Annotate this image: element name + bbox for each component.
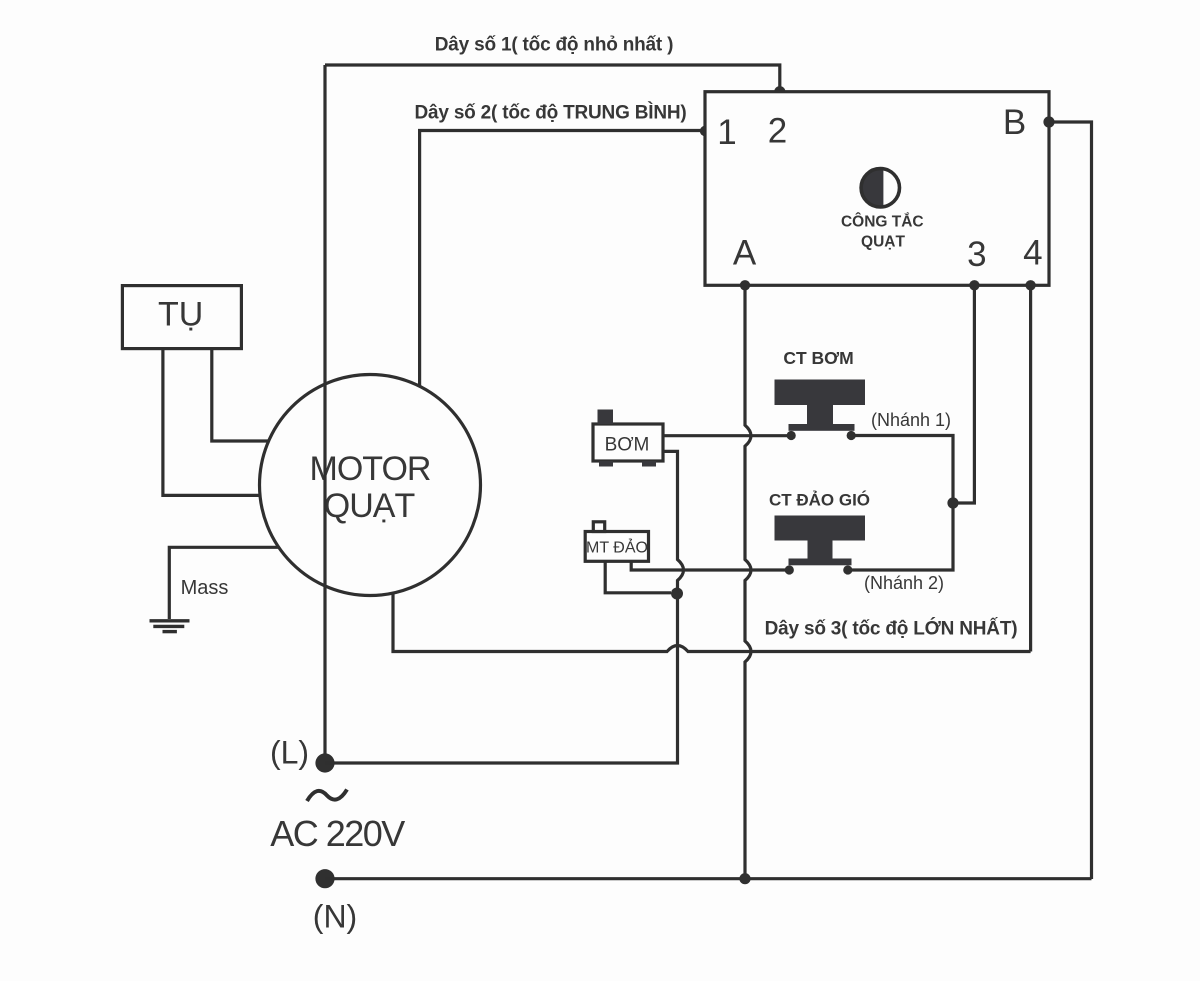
reversing motor box MT ĐẢO [585,522,648,562]
node CT BƠM left contact [787,431,796,440]
wire Dây số 2 (horizontal into terminal 1, vertical down to motor) [420,131,705,387]
svg-text:(N): (N) [313,899,357,935]
svg-text:CT BƠM: CT BƠM [783,348,853,368]
wire terminal A vertical down to N line (hops at three crossings) [745,285,751,879]
pump motor box BƠM [593,410,663,467]
svg-text:QUẠT: QUẠT [324,487,415,525]
wire MT ĐẢO right lead to CT ĐẢO GIÓ left contact [631,561,789,570]
svg-text:Dây số 3( tốc độ LỚN NHẤT): Dây số 3( tốc độ LỚN NHẤT) [765,618,1018,640]
ground symbol [150,621,190,632]
svg-text:AC 220V: AC 220V [270,813,405,854]
AC source tilde symbol [307,790,347,802]
switch box CÔNG TẮC QUẠT [705,92,1049,286]
svg-text:CÔNG TẮC: CÔNG TẮC [841,213,924,231]
svg-text:MT ĐẢO: MT ĐẢO [586,538,648,557]
wire Dây số 3 (from motor bottom, across to terminal 4 wire, hop at x=677.5) [393,593,1031,652]
node terminal 4 dot [1025,280,1035,290]
node branch riser junction dot [947,497,958,508]
svg-text:3: 3 [967,235,986,274]
svg-text:TỤ: TỤ [158,296,203,334]
node terminal B dot [1043,116,1054,127]
svg-text:B: B [1003,103,1026,142]
svg-text:CT ĐẢO GIÓ: CT ĐẢO GIÓ [769,491,870,510]
rotary switch icon (half-filled circle) [861,166,902,210]
node branch junction dot (BƠM/MT ĐẢO common) [671,588,683,600]
wire terminal 4 down to Dây số 3 line [1029,285,1032,651]
wire L line (from L dot right, then up to branch junction) [325,594,678,764]
node CT ĐẢO GIÓ left contact [785,565,794,574]
node junction dot N line with A wire [739,873,750,884]
svg-text:QUẠT: QUẠT [861,234,905,251]
node terminal A dot [740,280,750,290]
wire N line (from N dot to right bus) [325,877,1092,880]
svg-text:Mass: Mass [181,577,229,599]
svg-text:2: 2 [768,112,787,151]
svg-text:1: 1 [717,113,736,152]
svg-text:BƠM: BƠM [605,435,650,456]
wire Dây số 1 (top horizontal from left bus to switch box top) [325,65,780,92]
switch CT BƠM symbol [775,380,866,431]
node (L) dot [315,753,334,772]
wire BƠM bottom lead down to branch junction (hop at MT ĐẢO wire) [663,451,684,593]
motor circle [260,375,481,596]
node junction dot on box top edge [774,86,785,97]
node CT ĐẢO GIÓ right contact [843,565,852,574]
wire Mass lead from motor to ground [169,547,278,619]
switch CT ĐẢO GIÓ symbol [775,516,866,566]
svg-text:A: A [733,234,757,273]
node CT BƠM right contact [847,431,856,440]
svg-text:(L): (L) [270,735,309,771]
svg-text:(Nhánh 2): (Nhánh 2) [864,573,944,593]
wire TỤ right lead to motor [212,349,269,441]
svg-text:MOTOR: MOTOR [310,450,431,488]
node (N) dot [315,869,334,888]
wire MT ĐẢO left lead down to branch junction [605,561,671,593]
wire BƠM top lead to CT BƠM left contact [663,434,791,437]
wire from B to right bus down to N line [1049,122,1092,879]
wire branch 1 (CT BƠM right contact to vertical riser down to CT ĐẢO GIÓ right contact) [848,436,953,571]
capacitor box TỤ [122,286,241,349]
node terminal 1 dot on box left edge [700,126,710,136]
svg-text:Dây số 1( tốc độ nhỏ nhất ): Dây số 1( tốc độ nhỏ nhất ) [435,35,673,56]
svg-text:Dây số 2( tốc độ TRUNG BÌNH): Dây số 2( tốc độ TRUNG BÌNH) [414,102,686,124]
node terminal 3 dot [969,280,979,290]
wire left bus (Dây số 1 down through motor to L) [323,65,326,763]
wire terminal 3 down then left to branch junction [953,285,974,503]
svg-text:4: 4 [1023,234,1042,273]
wire TỤ left lead to motor [163,349,261,496]
svg-text:(Nhánh 1): (Nhánh 1) [871,410,951,430]
